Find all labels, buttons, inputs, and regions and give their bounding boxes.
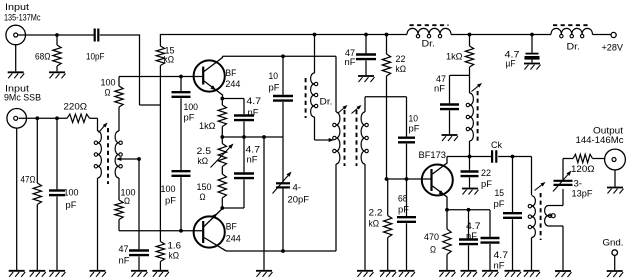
ground 2.2k	[380, 271, 397, 277]
wire J1 to node	[18, 34, 94, 36]
text 100pF a	[184, 102, 199, 123]
ground J2 shell	[9, 128, 26, 277]
resistor 1k bias	[465, 35, 473, 76]
svg-text:3-: 3-	[574, 179, 583, 189]
svg-text:BF: BF	[225, 68, 236, 78]
tuning arrow L tank	[472, 83, 483, 92]
svg-text:kΩ: kΩ	[164, 55, 175, 65]
core Dr2	[410, 24, 449, 26]
ground 47ohm	[29, 271, 46, 277]
text +28V	[602, 43, 624, 53]
svg-text:120Ω: 120Ω	[571, 164, 595, 174]
tap arrow Dr1 to T2	[315, 138, 335, 142]
svg-text:µF: µF	[506, 59, 516, 69]
tap T3 secondary	[549, 214, 556, 218]
svg-text:4-: 4-	[293, 183, 302, 193]
text 1.6k	[168, 241, 182, 261]
wire ground stub nodeA	[256, 137, 273, 277]
ground T2 secondary	[357, 271, 374, 277]
resistor 15k	[156, 46, 164, 231]
core T1	[107, 128, 109, 184]
wire C4 to nodeA	[243, 122, 245, 138]
text input 9Mc label	[4, 84, 41, 103]
resistor 470ohm	[443, 210, 451, 270]
capacitor 10pF input	[95, 29, 99, 42]
ground 100pF in	[49, 271, 66, 277]
svg-text:1kΩ: 1kΩ	[199, 121, 216, 131]
ground 47nF tap	[131, 271, 148, 277]
svg-text:2.5: 2.5	[197, 146, 212, 156]
resistor 68ohm	[53, 35, 61, 71]
ground 4.7nF c	[461, 271, 478, 277]
text BF244 Q2	[226, 222, 241, 244]
svg-text:kΩ: kΩ	[198, 156, 209, 166]
node rail 22k	[385, 33, 389, 37]
ground 22pF	[462, 189, 479, 195]
svg-text:Dr.: Dr.	[567, 42, 581, 52]
wire R120 to J3	[593, 158, 605, 160]
svg-text:135-137Mc: 135-137Mc	[4, 13, 41, 23]
svg-text:pF: pF	[494, 199, 506, 209]
svg-text:22: 22	[396, 54, 406, 64]
text 47nF tap	[119, 244, 131, 266]
svg-text:Gnd.: Gnd.	[603, 238, 624, 248]
svg-text:15: 15	[495, 188, 505, 198]
text 220ohm	[64, 102, 88, 112]
tuning arrow T3	[535, 182, 546, 191]
wire J2	[19, 116, 67, 120]
svg-text:pF: pF	[66, 200, 78, 210]
text 68ohm	[35, 52, 51, 62]
resistor 2.2k	[384, 179, 392, 270]
text 68pF	[398, 194, 410, 215]
text 22k	[396, 54, 407, 74]
svg-text:4.7: 4.7	[466, 221, 481, 231]
svg-text:4.7: 4.7	[494, 250, 509, 260]
svg-text:pF: pF	[269, 83, 281, 93]
potentiometer 2.5k	[211, 137, 234, 174]
ground J1	[8, 45, 25, 79]
wire collector BF173	[447, 155, 514, 159]
inductor T2 primary	[333, 112, 340, 251]
svg-text:+28V: +28V	[602, 43, 624, 53]
svg-text:100: 100	[184, 102, 199, 112]
ground 47nF rail	[358, 76, 375, 82]
text 150ohm	[197, 182, 212, 202]
text Dr3	[567, 42, 581, 52]
svg-text:13pF: 13pF	[572, 189, 594, 199]
ground 470ohm	[439, 271, 456, 277]
svg-text:47Ω: 47Ω	[21, 175, 36, 185]
resistor 220ohm	[67, 114, 90, 122]
text 2.5k	[197, 146, 212, 166]
wire 10pF to LO line	[100, 34, 140, 36]
wire T2sec to C10	[365, 96, 407, 98]
text 47nF rail	[345, 48, 357, 67]
svg-text:22: 22	[481, 168, 491, 178]
svg-text:10: 10	[269, 71, 279, 81]
capacitor 4.7nF c	[459, 210, 478, 270]
text input 135-137Mc label	[4, 2, 41, 23]
svg-text:10pF: 10pF	[86, 52, 105, 62]
resistor 1.6k	[156, 231, 164, 270]
inductor T3 primary	[528, 196, 535, 270]
svg-text:244: 244	[225, 79, 240, 89]
svg-text:Ck: Ck	[491, 140, 502, 150]
text Dr2	[422, 39, 436, 49]
resistor 120ohm	[573, 154, 593, 162]
svg-text:20pF: 20pF	[288, 195, 310, 205]
text BF244 Q1	[225, 68, 240, 89]
text 47ohm	[21, 175, 36, 185]
svg-text:nF: nF	[434, 84, 446, 94]
svg-text:BF173: BF173	[419, 150, 447, 160]
svg-text:kΩ: kΩ	[169, 251, 180, 261]
text 1k source1	[199, 121, 216, 131]
resistor 47ohm	[33, 118, 41, 270]
wire 220 to T1	[90, 118, 98, 131]
capacitor 100pF in	[49, 118, 65, 270]
wire emitter BF173	[445, 208, 490, 212]
text 4.7nF a	[247, 96, 262, 118]
capacitor 15pF	[503, 157, 522, 271]
svg-text:1.6: 1.6	[168, 241, 182, 251]
inductor T1 primary	[94, 131, 101, 270]
capacitor 47nF tank	[440, 75, 470, 134]
text 4.7uF	[505, 50, 520, 69]
tuning arrow T1	[99, 123, 108, 133]
node rail 47nF	[364, 33, 368, 37]
svg-text:100: 100	[161, 184, 176, 194]
connector J1 input 135-137Mc	[6, 25, 26, 45]
text BF173	[419, 150, 447, 160]
svg-text:BF: BF	[226, 222, 237, 232]
transistor Q2 BF244	[194, 209, 226, 251]
text 100pF b	[161, 184, 177, 206]
transistor Q3 BF173	[422, 157, 453, 210]
capacitor 100pF a	[172, 75, 191, 170]
text Gnd	[603, 238, 624, 248]
tuning arrow T2 right	[352, 105, 362, 114]
node input1	[55, 33, 59, 37]
tuning arrow T2 left	[338, 105, 348, 114]
text 100pF in	[64, 188, 79, 211]
resistor 100ohm b	[115, 200, 123, 231]
svg-text:2.2: 2.2	[369, 208, 383, 218]
ground 15pF	[505, 271, 522, 277]
ground T3 secondary	[555, 271, 572, 277]
svg-text:144-146Mc: 144-146Mc	[576, 135, 625, 145]
text 15k	[164, 46, 175, 65]
ground 4.7nF d	[482, 271, 499, 277]
connector J2 input 9Mc	[7, 109, 27, 129]
svg-text:Input: Input	[5, 2, 30, 12]
text 4.7nF d	[494, 250, 509, 271]
svg-text:470: 470	[424, 232, 439, 242]
text 10pF input	[86, 52, 105, 62]
text 4.7nF b	[246, 145, 261, 165]
svg-text:68: 68	[398, 194, 408, 204]
capacitor Ck	[492, 150, 496, 163]
svg-text:nF: nF	[247, 155, 259, 165]
svg-text:47: 47	[436, 74, 446, 84]
wire node A	[220, 135, 283, 139]
svg-text:4.7: 4.7	[246, 145, 261, 155]
ground T3 primary	[524, 271, 541, 277]
resistor 22k	[382, 35, 390, 180]
core T2	[345, 110, 357, 166]
capacitor 10pF b	[398, 97, 415, 179]
capacitor 4.7nF b	[234, 137, 254, 208]
capacitor 68pF	[397, 179, 416, 270]
node rail Dr1	[313, 33, 317, 37]
svg-text:pF: pF	[165, 196, 177, 206]
capacitor 4.7nF a	[234, 116, 254, 121]
resistor 100ohm a	[115, 77, 123, 132]
svg-text:10: 10	[409, 114, 419, 124]
trimmer 3-13pF	[553, 159, 573, 206]
node trimmer join	[281, 249, 285, 253]
svg-text:68Ω: 68Ω	[35, 52, 51, 62]
wire LO vertical	[140, 34, 161, 105]
transistor Q1 BF244	[194, 56, 225, 98]
svg-text:Dr.: Dr.	[422, 39, 436, 49]
text 4.7nF c	[466, 221, 481, 241]
capacitor 4.7uF	[525, 35, 540, 63]
svg-text:100: 100	[101, 78, 116, 88]
inductor L tank	[466, 75, 473, 156]
inductor T3 secondary	[545, 206, 563, 271]
svg-text:pF: pF	[409, 124, 421, 134]
wire T3 to R120	[563, 158, 573, 160]
core Dr3	[553, 24, 591, 26]
capacitor 10pF mid	[273, 56, 293, 137]
text 120ohm	[571, 164, 595, 174]
svg-text:1kΩ: 1kΩ	[446, 52, 463, 62]
capacitor 47nF tap	[129, 159, 149, 270]
text 15pF	[494, 188, 506, 209]
core T3	[540, 193, 542, 240]
svg-text:nF: nF	[345, 57, 357, 67]
text 100ohm a	[101, 78, 116, 98]
svg-text:150: 150	[197, 182, 212, 192]
ground 68pF	[399, 271, 416, 277]
inductor Dr1	[311, 35, 318, 141]
wire drain1 rail	[223, 56, 337, 112]
node rail 1k	[468, 33, 472, 37]
text 10pF b	[409, 114, 421, 134]
svg-text:Ω: Ω	[105, 88, 111, 98]
text 3-13pF	[572, 179, 594, 199]
ground T1 primary	[90, 271, 107, 277]
svg-text:220Ω: 220Ω	[64, 102, 88, 112]
svg-text:Ω: Ω	[200, 192, 206, 202]
svg-text:nF: nF	[494, 261, 506, 271]
svg-text:Ω: Ω	[124, 196, 130, 206]
svg-text:kΩ: kΩ	[369, 219, 380, 229]
node tap	[137, 157, 141, 161]
text 2.2k	[369, 208, 383, 229]
wire drain2	[226, 250, 336, 252]
wire emitter1 to C4	[222, 99, 244, 115]
ground 4.7uF	[524, 64, 541, 70]
svg-text:Dr.: Dr.	[320, 97, 333, 107]
node drain1 cap	[281, 54, 285, 58]
core L tank	[477, 91, 479, 141]
terminal +28V	[611, 32, 616, 37]
wire gate1	[119, 76, 203, 78]
svg-text:4.7: 4.7	[247, 96, 262, 106]
inductor T1 secondary	[115, 131, 122, 200]
resistor 150ohm	[218, 174, 226, 208]
text Dr1	[320, 97, 333, 107]
wire +28V rail	[160, 34, 611, 46]
svg-text:Ω: Ω	[430, 245, 436, 255]
svg-text:nF: nF	[119, 256, 131, 266]
svg-text:244: 244	[226, 234, 241, 244]
ground 47nF tank	[442, 135, 459, 141]
trimmer 4-20pF	[273, 137, 292, 251]
capacitor 100pF b	[172, 171, 191, 233]
ground J3	[607, 170, 624, 194]
tap arrow T1	[116, 157, 139, 161]
node rail 4.7uF	[530, 33, 534, 37]
capacitor 47nF rail	[356, 35, 376, 76]
svg-text:47: 47	[119, 244, 129, 254]
wire Ck to T3	[498, 157, 531, 196]
text 10pF mid	[269, 71, 281, 93]
capacitor 4.7nF d	[481, 210, 500, 270]
text 47nF tank	[434, 74, 446, 94]
inductor T2 secondary	[361, 97, 368, 270]
wire gate2	[119, 230, 203, 232]
text 22pF	[481, 168, 493, 189]
inductor Dr3	[551, 28, 593, 37]
svg-text:kΩ: kΩ	[396, 64, 407, 74]
ground 1.6k	[152, 271, 169, 277]
svg-text:100: 100	[64, 188, 79, 198]
connector J3 output	[605, 149, 626, 170]
resistor 1k source1	[218, 99, 226, 138]
capacitor 22pF	[461, 157, 479, 188]
ground Gnd terminal	[607, 271, 624, 277]
wire base BF173	[385, 177, 432, 181]
svg-text:9Mc SSB: 9Mc SSB	[4, 93, 41, 103]
ground 68ohm	[49, 72, 66, 78]
svg-text:pF: pF	[481, 179, 493, 189]
text 470ohm	[424, 232, 439, 255]
core Dr1	[305, 78, 307, 118]
svg-text:nF: nF	[248, 108, 260, 118]
svg-text:nF: nF	[466, 231, 478, 241]
inductor Dr2	[407, 28, 451, 37]
text output label	[576, 126, 625, 145]
text 100ohm b	[121, 188, 136, 207]
node emitter1	[220, 97, 224, 101]
text 4-20pF	[288, 183, 310, 205]
text Ck	[491, 140, 502, 150]
svg-text:pF: pF	[184, 113, 196, 123]
terminal Gnd	[612, 250, 618, 270]
text 1k bias	[446, 52, 463, 62]
svg-text:pF: pF	[398, 205, 410, 215]
wire node B	[220, 206, 244, 210]
